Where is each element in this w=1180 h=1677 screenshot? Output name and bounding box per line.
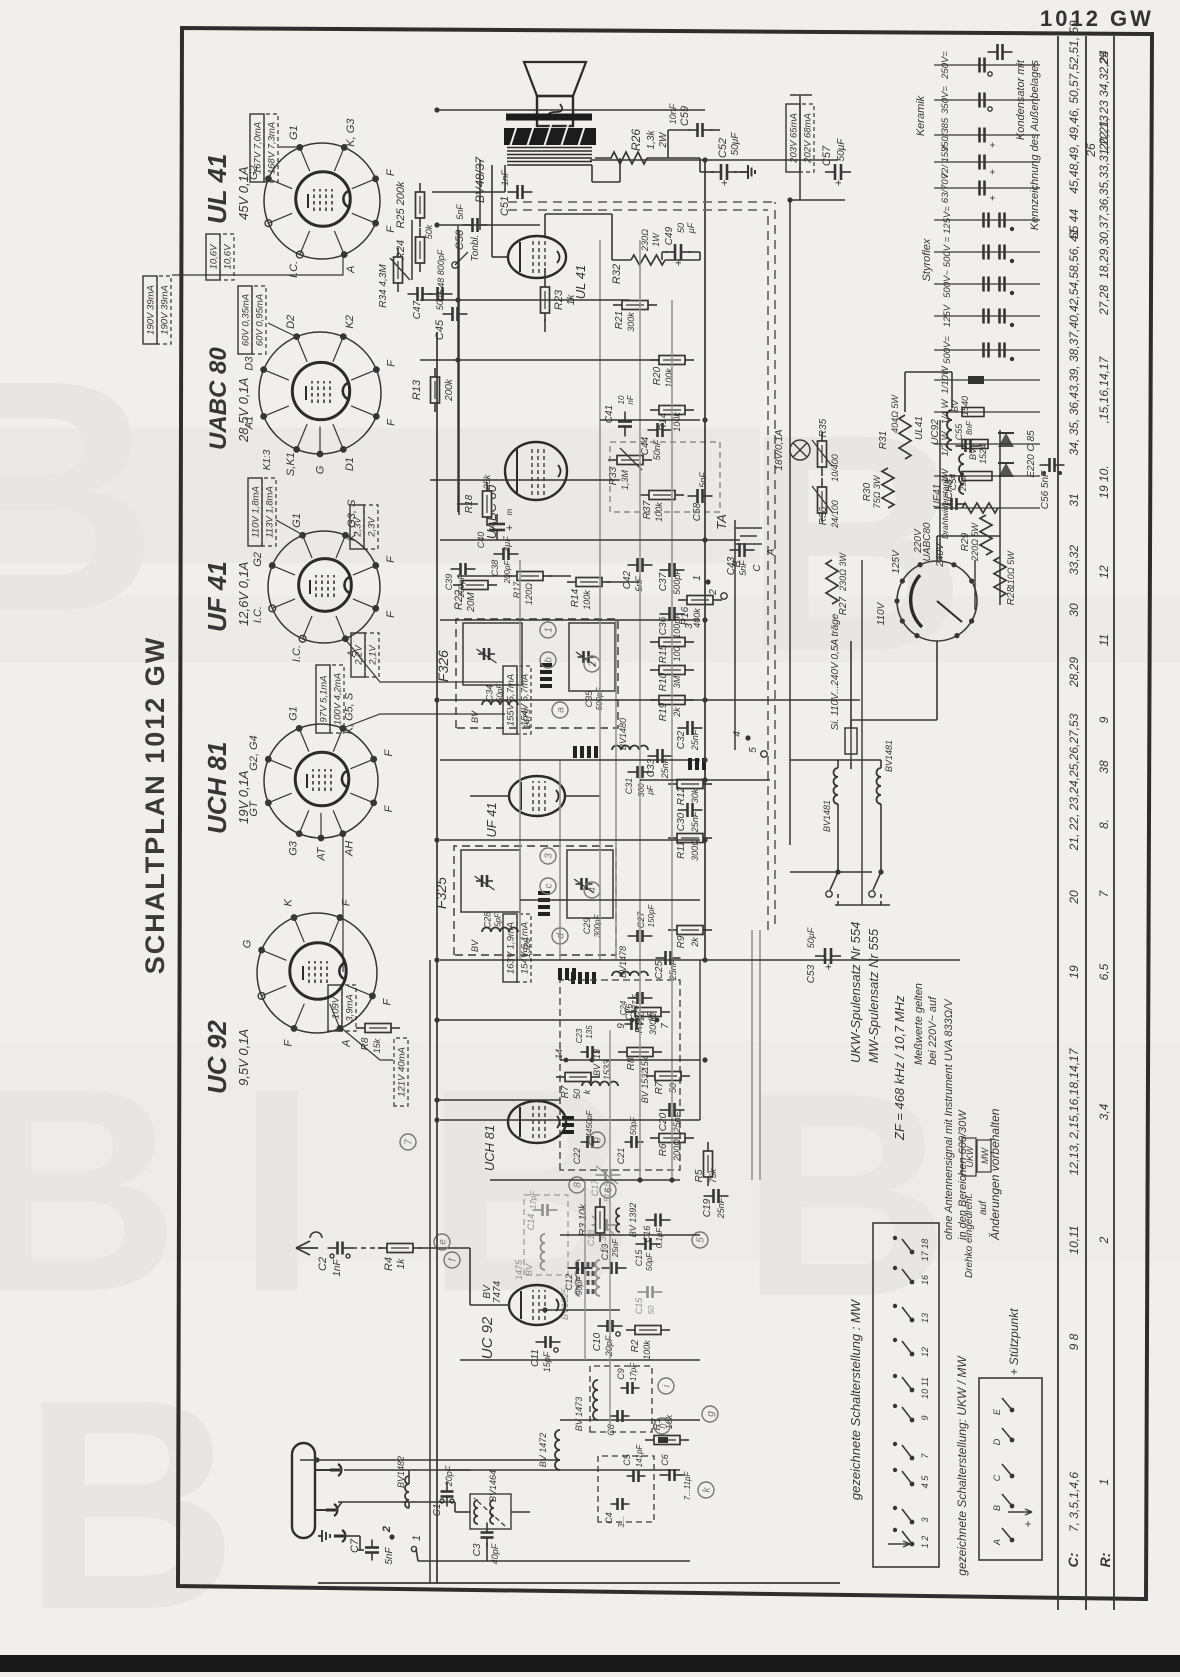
svg-text:40pF: 40pF <box>490 1543 500 1564</box>
resistor R33 1,3M potentiometer <box>608 459 617 461</box>
switch chart UKW box <box>979 1378 1042 1560</box>
svg-text:8: 8 <box>573 1182 584 1188</box>
svg-text:7...11pF: 7...11pF <box>683 1471 692 1501</box>
svg-text:R12: R12 <box>676 786 687 805</box>
svg-text:K: K <box>282 898 294 906</box>
svg-text:C: C <box>752 564 763 572</box>
wire R4 to UC92 <box>418 1247 470 1249</box>
svg-text:500pF: 500pF <box>672 569 682 595</box>
resistor R15 100 <box>650 641 659 643</box>
capacitor C10 20pF <box>598 1325 608 1327</box>
coil BV1525 a <box>576 1260 581 1296</box>
heater coil BV1540 UC92 <box>947 410 952 450</box>
core marks BV1480 <box>688 758 692 770</box>
resistor R6 200 <box>650 1137 659 1139</box>
resistor R4 1k <box>378 1247 387 1249</box>
svg-text:12,13, 2,15,16,18,14,17: 12,13, 2,15,16,18,14,17 <box>1067 1047 1081 1175</box>
svg-text:G1: G1 <box>288 706 300 721</box>
svg-text:167V 7,0mA: 167V 7,0mA <box>253 122 264 174</box>
capacitor C3 40pF <box>486 1538 488 1548</box>
svg-text:C17: C17 <box>590 1179 600 1197</box>
svg-text:C25: C25 <box>654 960 665 979</box>
svg-text:200pF: 200pF <box>503 560 512 585</box>
svg-text:1012 GW: 1012 GW <box>1040 6 1154 31</box>
svg-text:K, G5, S: K, G5, S <box>343 692 355 734</box>
svg-text:A: A <box>345 266 357 274</box>
switch contact 4 5 <box>910 1482 915 1487</box>
svg-text:50k: 50k <box>424 224 434 239</box>
svg-text:BV 1392: BV 1392 <box>628 1203 638 1238</box>
svg-text:5: 5 <box>696 1237 707 1243</box>
svg-text:Änderungen vorbehalten: Änderungen vorbehalten <box>988 1108 1002 1241</box>
bus bottom <box>318 1582 840 1584</box>
svg-text:97V 5,1mA: 97V 5,1mA <box>319 676 330 723</box>
capacitor C1 20pF <box>446 1497 448 1507</box>
resistor R13b 100k <box>650 409 659 411</box>
svg-text:C57: C57 <box>821 145 833 166</box>
svg-text:R32: R32 <box>611 264 623 284</box>
svg-text:3: 3 <box>544 853 555 859</box>
svg-text:UKW: UKW <box>965 1145 975 1168</box>
svg-text:G: G <box>315 465 327 474</box>
svg-text:1: 1 <box>1097 1479 1111 1486</box>
voltage box UF41 cathode <box>350 505 364 549</box>
svg-text:R8: R8 <box>626 1057 637 1070</box>
resistor R18 25k <box>486 517 488 526</box>
switch contact 12 <box>910 1352 915 1357</box>
wire run <box>540 1309 620 1311</box>
svg-text:C10: C10 <box>592 1332 603 1351</box>
svg-text:3,4: 3,4 <box>1097 1103 1111 1120</box>
svg-text:50pF: 50pF <box>496 683 505 702</box>
resistor R38 300 <box>626 1011 635 1013</box>
svg-text:28,5V 0,1A: 28,5V 0,1A <box>236 378 251 443</box>
TA pickup jack <box>735 528 762 544</box>
border frame <box>178 28 1152 1599</box>
switch contact 13 <box>910 1318 915 1323</box>
svg-text:20M: 20M <box>466 592 477 613</box>
svg-text:R15: R15 <box>658 644 669 663</box>
svg-text:ZF = 468 kHz / 10,7 MHz: ZF = 468 kHz / 10,7 MHz <box>892 995 907 1141</box>
svg-text:31: 31 <box>1067 493 1081 506</box>
svg-text:R3 10k: R3 10k <box>578 1203 589 1236</box>
wire run <box>440 839 700 841</box>
heater chain resistor R31 404ohm 5W <box>899 415 911 459</box>
svg-text:50pF: 50pF <box>645 1252 654 1271</box>
switch contact C <box>1010 1474 1015 1479</box>
svg-text:15pF: 15pF <box>542 1351 552 1372</box>
svg-text:R14: R14 <box>658 412 669 431</box>
svg-text:1/4 W: 1/4 W <box>940 399 951 425</box>
coil BV1392 <box>616 1208 620 1232</box>
svg-text:G1: G1 <box>288 125 300 140</box>
svg-text:μF: μF <box>686 222 696 234</box>
svg-text:1nF: 1nF <box>500 170 510 186</box>
svg-text:C34: C34 <box>485 685 495 702</box>
svg-text:6,5: 6,5 <box>1097 963 1111 980</box>
svg-text:5nF: 5nF <box>634 576 644 592</box>
trimmer C27 150pF <box>628 935 638 937</box>
resistor R16 400k <box>678 599 687 601</box>
tube socket UCH81 <box>264 724 378 838</box>
svg-text:+: + <box>988 169 999 175</box>
svg-text:200pF: 200pF <box>457 574 466 599</box>
capacitor C52 50uF electrolytic <box>711 171 721 173</box>
tube UCH81 envelope <box>508 1101 566 1143</box>
coil BV1472 <box>555 1430 560 1470</box>
potentiometer R34 4,3M <box>397 283 399 292</box>
trimmer C23 135pF <box>581 1051 588 1053</box>
antenna jack 1 <box>338 1464 341 1476</box>
switch contact 1 2 <box>910 1542 915 1547</box>
chart capacitor 250V= <box>934 64 1040 66</box>
svg-text:230Ω: 230Ω <box>640 229 650 252</box>
chart capacitor 500V~ <box>934 283 1040 285</box>
svg-text:2,3V: 2,3V <box>367 516 378 538</box>
mains coil BV1481 a <box>834 768 839 804</box>
svg-text:R35: R35 <box>818 418 829 437</box>
trimmer C28 <box>461 850 520 912</box>
fuse <box>845 728 857 754</box>
svg-text:C28: C28 <box>483 912 493 929</box>
capacitor C37 500pF <box>660 569 670 571</box>
callout 1 <box>540 622 556 638</box>
resistor R24 50k <box>419 263 421 272</box>
svg-text:100k: 100k <box>582 590 592 610</box>
wire run <box>599 240 601 960</box>
svg-text:C32: C32 <box>676 730 687 749</box>
svg-text:C20: C20 <box>658 1112 669 1131</box>
svg-text:163V 1,9mA: 163V 1,9mA <box>506 922 517 974</box>
svg-text:R11: R11 <box>676 841 687 859</box>
coil BV1525 b <box>596 1260 601 1296</box>
trimmer C22 4450pF <box>581 1141 588 1143</box>
svg-text:100V 4,2mA: 100V 4,2mA <box>333 673 344 725</box>
resistor R7 50k <box>556 1076 565 1078</box>
svg-text:C22: C22 <box>572 1148 582 1165</box>
capacitor C19 25nF <box>704 1195 714 1197</box>
svg-text:11: 11 <box>1097 634 1111 646</box>
callout d <box>552 928 568 944</box>
coil BV1479 <box>482 701 518 706</box>
svg-text:C53: C53 <box>806 964 817 983</box>
svg-text:33,32: 33,32 <box>1067 545 1081 575</box>
svg-text:UKW-Spulensatz Nr 554: UKW-Spulensatz Nr 554 <box>848 922 863 1063</box>
svg-text:UC 92: UC 92 <box>479 1316 496 1359</box>
wire run <box>671 300 673 1180</box>
svg-text:R14: R14 <box>570 588 581 607</box>
callout a <box>552 702 568 718</box>
svg-text:17pF: 17pF <box>529 1190 538 1209</box>
svg-text:3: 3 <box>684 623 695 629</box>
svg-text:404Ω 5W: 404Ω 5W <box>890 394 900 433</box>
chart capacitor 350/385 <box>934 134 1040 136</box>
tuner box BV1473 <box>590 1366 652 1432</box>
svg-text:MW-Spulensatz Nr 555: MW-Spulensatz Nr 555 <box>866 928 881 1063</box>
switch contact E <box>1010 1408 1015 1413</box>
svg-text:50: 50 <box>676 223 686 233</box>
wires antenna block <box>447 1469 470 1471</box>
resistor R3 10k <box>599 1233 601 1242</box>
switch arrow UKW <box>1008 1509 1032 1515</box>
trimmer C29 <box>567 850 613 918</box>
wire arm2 run <box>338 1501 455 1503</box>
svg-text:G2, G4: G2, G4 <box>248 735 260 770</box>
svg-text:20pF: 20pF <box>604 1335 614 1357</box>
svg-text:C36: C36 <box>658 616 669 635</box>
svg-text:120Ω: 120Ω <box>524 583 534 605</box>
svg-text:UL 41: UL 41 <box>202 154 232 224</box>
svg-text:75Ω 3W: 75Ω 3W <box>872 474 882 508</box>
callout e <box>434 1234 450 1250</box>
callout i <box>658 1378 674 1394</box>
switch contact 9 <box>910 1418 915 1423</box>
svg-text:5nF: 5nF <box>698 472 708 488</box>
svg-text:7: 7 <box>404 1139 415 1145</box>
wire run grid <box>699 960 701 1120</box>
trimmer C31 300pF <box>628 771 638 773</box>
svg-text:500V=: 500V= <box>942 336 953 364</box>
mains coil BV1481 b <box>877 768 881 804</box>
svg-text:25nF: 25nF <box>690 811 700 833</box>
wire run <box>411 220 413 280</box>
svg-text:45V 0,1A: 45V 0,1A <box>236 167 251 221</box>
capacitor C58 5nF <box>688 495 698 497</box>
trimmer C8 15,1pF <box>611 1415 618 1417</box>
svg-text:C38: C38 <box>490 560 500 577</box>
voltage box UC92 <box>394 1038 408 1106</box>
svg-text:15k: 15k <box>372 1038 382 1053</box>
svg-text:14: 14 <box>554 1049 564 1059</box>
wire run <box>437 109 705 111</box>
wire R26 to C52 <box>647 157 700 159</box>
capacitor C57 50uF <box>825 171 835 173</box>
ground antenna <box>318 1530 330 1542</box>
chart resistor 1/2 W <box>934 443 1040 445</box>
svg-text:UC 92: UC 92 <box>202 1020 232 1094</box>
callout k <box>698 1482 714 1498</box>
wire run <box>520 899 700 901</box>
svg-text:B: B <box>740 1033 949 1357</box>
wire antenna bottom rail <box>418 1560 690 1562</box>
core marks F326 a <box>540 684 552 688</box>
svg-text:d: d <box>556 933 567 939</box>
coil BV1533 <box>582 1082 618 1087</box>
resistor R20 100k <box>650 359 659 361</box>
svg-text:R26: R26 <box>629 129 643 151</box>
svg-text:203V 65mA: 203V 65mA <box>789 113 800 164</box>
antenna symbol <box>296 1232 322 1255</box>
svg-text:8.: 8. <box>1097 819 1111 829</box>
svg-text:5: 5 <box>748 747 759 753</box>
svg-text:21, 22, 23,24,25,26,27,53: 21, 22, 23,24,25,26,27,53 <box>1067 713 1081 851</box>
svg-text:R8: R8 <box>360 1037 371 1050</box>
capacitor C41 10nF <box>624 427 626 437</box>
voltage box UF41 anode <box>248 478 262 546</box>
svg-text:1: 1 <box>692 575 703 581</box>
switch contact A <box>1010 1538 1015 1543</box>
svg-text:10: 10 <box>617 395 626 404</box>
switch chart MW box <box>873 1223 939 1567</box>
svg-text:75k: 75k <box>708 1168 718 1183</box>
svg-text:BV: BV <box>524 1263 534 1276</box>
svg-text:BV1481: BV1481 <box>884 740 894 772</box>
voltage box UL41 cathode <box>206 234 220 280</box>
resistor R26 1,3k 2W <box>595 157 612 159</box>
wire run <box>440 959 960 961</box>
capacitor C21b 50pF <box>638 1291 648 1293</box>
svg-text:2,1V: 2,1V <box>368 644 379 666</box>
svg-text:C13: C13 <box>600 1244 610 1261</box>
svg-text:C30: C30 <box>676 812 687 831</box>
wire run <box>559 760 561 960</box>
wire run <box>490 1179 680 1181</box>
svg-text:C48 800pF: C48 800pF <box>436 249 446 294</box>
svg-text:24/100: 24/100 <box>830 500 840 529</box>
tube UF41 envelope <box>509 776 565 816</box>
antenna jack 2 <box>334 1504 337 1516</box>
svg-text:30k: 30k <box>690 788 700 803</box>
chart capacitor 72/ 15V <box>934 161 1040 163</box>
capacitor C13 25nF <box>602 1267 612 1269</box>
capacitor C32 25nF <box>678 727 688 729</box>
svg-text:UCH 81: UCH 81 <box>482 1125 497 1171</box>
svg-text:1 2: 1 2 <box>920 1536 930 1549</box>
svg-text:G: G <box>241 939 253 948</box>
capacitor C42 5nF <box>628 564 638 566</box>
svg-text:110V: 110V <box>876 601 887 625</box>
wire selector <box>936 641 938 720</box>
svg-text:K, G3: K, G3 <box>345 118 357 147</box>
svg-text:10nF: 10nF <box>668 103 678 124</box>
svg-text:BV1464: BV1464 <box>488 1470 498 1502</box>
svg-text:E220 C 85: E220 C 85 <box>1026 430 1037 478</box>
callout 9 <box>589 1132 605 1148</box>
resistor R21 300k <box>613 304 622 306</box>
svg-text:5pF: 5pF <box>494 912 503 927</box>
svg-text:1nF: 1nF <box>332 1258 343 1276</box>
dashed shield bus horizontal <box>767 210 769 930</box>
svg-text:1,3M: 1,3M <box>620 469 630 490</box>
svg-text:Keramik: Keramik <box>915 95 927 136</box>
svg-text:2k: 2k <box>672 707 682 718</box>
capacitor C12 90pF <box>568 1267 578 1269</box>
svg-text:R10: R10 <box>658 672 669 691</box>
wire run <box>560 1419 700 1421</box>
resistor R1 10k <box>645 1439 654 1441</box>
wire antenna dashed <box>352 1247 382 1249</box>
svg-text:9: 9 <box>616 1023 627 1029</box>
switch Tonblende <box>452 262 458 268</box>
svg-text:12: 12 <box>920 1347 930 1357</box>
tube UC92 envelope <box>509 1285 565 1325</box>
svg-text:1/2 W: 1/2 W <box>940 431 951 457</box>
svg-text:300Ω: 300Ω <box>690 839 700 861</box>
heater UF41 C54 25nF <box>942 503 952 505</box>
coil BV1478 secondary <box>612 972 648 977</box>
svg-text:4 5: 4 5 <box>920 1475 930 1489</box>
switch contact 17 18 <box>910 1250 915 1255</box>
svg-text:10,6V: 10,6V <box>223 243 234 269</box>
bottom scan band <box>0 1655 1180 1672</box>
chart sample capacitor <box>988 51 998 53</box>
svg-text:S,K1: S,K1 <box>285 452 297 476</box>
svg-text:Drahtwiderstand: Drahtwiderstand <box>940 477 950 539</box>
svg-text:0,1μF: 0,1μF <box>655 1227 664 1249</box>
svg-text:20: 20 <box>1067 890 1081 905</box>
svg-text:B: B <box>992 1505 1002 1511</box>
svg-text:C56 5nF: C56 5nF <box>1040 470 1051 509</box>
trimmer C24 437pF <box>625 1023 632 1025</box>
coil BV1473 <box>593 1380 598 1420</box>
svg-text:C9: C9 <box>616 1368 626 1380</box>
svg-text:7474: 7474 <box>492 1280 503 1303</box>
chart capacitor 350V= <box>934 99 1040 101</box>
svg-text:D2: D2 <box>285 315 297 329</box>
svg-text:300: 300 <box>637 783 646 797</box>
svg-text:MW: MW <box>980 1147 990 1164</box>
wire run <box>479 160 481 230</box>
capacitor C2 1nF <box>328 1247 338 1249</box>
svg-text:Styroflex: Styroflex <box>921 238 933 281</box>
svg-text:500V =: 500V = <box>942 236 953 267</box>
chart resistor Drahtwiderstand <box>934 507 1040 509</box>
svg-text:R25 200k: R25 200k <box>395 181 407 229</box>
switch arrow MW <box>888 1541 910 1547</box>
wire run <box>420 359 660 361</box>
core marks BV1525 <box>587 1260 590 1294</box>
svg-text:C39: C39 <box>444 574 454 591</box>
svg-text:SCHALTPLAN 1012 GW: SCHALTPLAN 1012 GW <box>140 636 170 975</box>
svg-text:B: B <box>22 1336 239 1672</box>
wire run <box>440 619 700 621</box>
voltage box UCH81 anode <box>328 985 342 1031</box>
wire run <box>437 1099 560 1101</box>
svg-text:63/70V: 63/70V <box>940 171 951 203</box>
coil BV1475 <box>541 1234 546 1270</box>
svg-text:b: b <box>544 657 555 663</box>
svg-text:BV 1472: BV 1472 <box>538 1433 548 1468</box>
wire run <box>615 620 617 960</box>
svg-text:1524: 1524 <box>978 444 988 464</box>
svg-text:25nF: 25nF <box>716 1197 726 1219</box>
wire run <box>429 960 431 1583</box>
svg-text:20pF: 20pF <box>444 1465 454 1487</box>
svg-text:+: + <box>823 964 835 970</box>
svg-text:C24: C24 <box>619 1000 628 1015</box>
svg-text:R36: R36 <box>818 506 829 525</box>
heater chain resistor R28 110ohm 5W <box>994 557 1006 597</box>
IF transformer F326 box <box>456 619 618 728</box>
node 13 <box>590 1058 595 1063</box>
wire run <box>789 200 791 845</box>
svg-text:17pF: 17pF <box>629 1362 638 1381</box>
heater chain resistor R29 220ohm 5W <box>980 515 992 555</box>
chart resistor 1/4 W <box>934 411 1040 413</box>
capacitor C43 5nF <box>730 549 740 551</box>
wire run <box>600 419 700 421</box>
voltage box UABC80 <box>238 286 252 354</box>
svg-text:A: A <box>341 1040 353 1048</box>
scale lamp <box>790 440 810 460</box>
voltage box UCH81 hex <box>503 914 517 982</box>
svg-text:C15: C15 <box>634 1297 644 1315</box>
svg-text:C47: C47 <box>412 300 423 319</box>
svg-text:R37: R37 <box>642 500 653 519</box>
voltage box UF41 screen <box>503 666 517 734</box>
svg-text:7: 7 <box>660 1023 671 1029</box>
svg-text:C15: C15 <box>634 1249 644 1267</box>
